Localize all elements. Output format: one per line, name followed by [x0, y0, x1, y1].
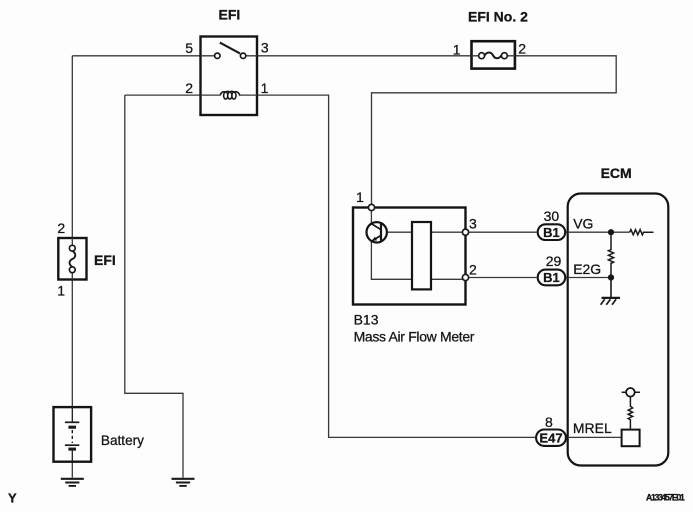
power rail tap (MREL) — [622, 391, 640, 393]
svg-text:3: 3 — [469, 215, 477, 231]
ground (ECM internal, hatched) — [601, 298, 620, 305]
wire: fuse EFI No.2 pin 2 to MAF pin 1 — [372, 56, 617, 207]
driver block (MREL) — [622, 430, 640, 447]
fuse EFI No.2 box — [472, 41, 515, 68]
svg-text:EFI No. 2: EFI No. 2 — [468, 9, 528, 25]
svg-text:EFI: EFI — [219, 7, 241, 23]
MAF pin 1 terminal — [368, 204, 374, 210]
svg-text:5: 5 — [185, 40, 193, 56]
svg-text:2: 2 — [518, 41, 526, 57]
ground (relay coil return) — [172, 479, 195, 486]
relay switch wires — [201, 55, 258, 57]
relay EFI box — [201, 37, 258, 116]
MAF pin 3 terminal — [462, 229, 468, 235]
svg-text:MREL: MREL — [573, 420, 612, 436]
relay coil — [220, 91, 240, 99]
svg-text:Y: Y — [8, 490, 17, 505]
svg-text:EFI: EFI — [94, 252, 116, 268]
fuse EFI box — [58, 238, 86, 280]
connector E47 pin 8 — [536, 430, 566, 446]
relay switch lever — [220, 43, 240, 54]
ground (battery) — [61, 479, 84, 486]
MAF box B13 — [353, 208, 466, 305]
wire: E2G inside ECM — [568, 277, 611, 279]
svg-text:B1: B1 — [543, 270, 560, 285]
svg-text:B13: B13 — [354, 312, 379, 328]
wire: relay pin 2 branch left — [125, 94, 201, 96]
wire: VG inside ECM — [568, 231, 630, 233]
battery box — [54, 407, 92, 462]
wire: relay pin 3 to fuse EFI No.2 pin 1 — [257, 55, 472, 57]
svg-text:29: 29 — [546, 253, 562, 269]
svg-text:1: 1 — [57, 282, 65, 298]
junction node VG — [608, 229, 614, 235]
svg-text:3: 3 — [261, 40, 269, 56]
svg-text:VG: VG — [573, 216, 593, 232]
connector B1 pin 30 — [538, 224, 566, 240]
ECM box — [568, 194, 669, 466]
MAF internal wire: collector feed to pin 2 — [371, 241, 462, 279]
svg-text:Mass Air Flow Meter: Mass Air Flow Meter — [354, 328, 475, 344]
svg-text:1: 1 — [453, 42, 461, 58]
svg-text:8: 8 — [545, 414, 553, 430]
relay coil wires — [201, 94, 258, 96]
svg-text:1: 1 — [261, 80, 269, 96]
svg-text:E2G: E2G — [573, 261, 601, 277]
resistor (VG to E2G divider) — [608, 232, 613, 277]
svg-text:B1: B1 — [543, 225, 560, 240]
battery cells — [65, 407, 79, 462]
relay switch contact left — [215, 53, 220, 58]
MAF internal wire: base to pin 3 — [381, 231, 463, 233]
MAF sensing element — [412, 222, 431, 289]
resistor (VG load) — [630, 230, 654, 235]
resistor (MREL pull-up) — [628, 397, 632, 430]
fuse EFI element — [69, 238, 75, 280]
svg-text:30: 30 — [544, 208, 560, 224]
MAF internal wire: pin 1 to transistor — [370, 208, 372, 224]
connector B1 pin 29 — [538, 270, 566, 286]
wire: relay pin 2 down to ground — [125, 95, 183, 478]
svg-text:2: 2 — [185, 80, 193, 96]
wire: top feed B+ to relay pin 5 (y=56) — [72, 55, 200, 57]
wire: MAF pin2 to ECM E2G (B1-29) — [469, 277, 568, 279]
wire: MREL inside ECM — [568, 436, 622, 438]
svg-text:1: 1 — [356, 189, 364, 205]
wire: relay pin 1 to ECM MREL E47 — [257, 95, 535, 437]
transistor Q (MAF) — [367, 222, 387, 242]
svg-text:2: 2 — [469, 261, 477, 277]
svg-text:ECM: ECM — [601, 165, 632, 181]
junction node E2G — [608, 274, 614, 280]
svg-text:E47: E47 — [539, 431, 562, 446]
wire: battery column B+ (x=72) — [71, 56, 73, 478]
MAF pin 2 terminal — [462, 274, 468, 280]
wire: MAF pin3 to ECM VG (B1-30) — [469, 231, 568, 233]
svg-text:Battery: Battery — [101, 433, 144, 448]
wire: E2G to internal ground — [610, 278, 612, 298]
svg-text:A133457E01: A133457E01 — [646, 493, 685, 503]
svg-text:2: 2 — [57, 220, 65, 236]
relay switch contact right — [240, 53, 245, 58]
fuse EFI No.2 element — [472, 53, 516, 59]
